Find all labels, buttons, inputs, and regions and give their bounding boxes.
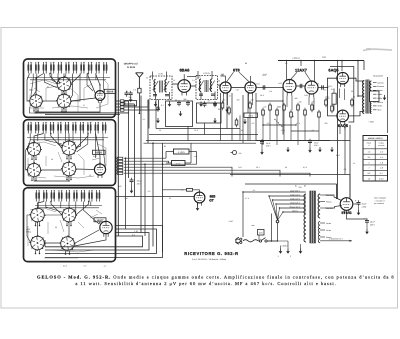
svg-text:a 11 watt. Sensibilità d’anten: a 11 watt. Sensibilità d’antenna 2 μV pe… bbox=[75, 281, 336, 286]
grid resistor 1M bbox=[187, 188, 193, 191]
tube V5b 12AX7 bbox=[305, 81, 318, 97]
tube V3 6BA6 (IF amp) bbox=[178, 80, 191, 96]
svg-text:6BA6: 6BA6 bbox=[107, 91, 114, 94]
svg-text:14.5: 14.5 bbox=[262, 74, 266, 77]
tube V2 6BE6 (converter) bbox=[94, 164, 105, 178]
svg-text:36: 36 bbox=[55, 226, 57, 229]
under-IF caps and stubs bbox=[156, 106, 160, 112]
svg-text:47: 47 bbox=[83, 104, 85, 107]
svg-text:GELOSO - Mod. G. 952-R. Onde m: GELOSO - Mod. G. 952-R. Onde medie e cin… bbox=[37, 274, 395, 279]
svg-text:1.25: 1.25 bbox=[134, 230, 138, 233]
coil bank bus, block 3 bbox=[35, 205, 102, 207]
volume control dashed arrow bbox=[275, 119, 284, 128]
svg-text:4.7: 4.7 bbox=[199, 76, 202, 79]
svg-text:B1: B1 bbox=[295, 185, 297, 188]
svg-text:Colleg.: Colleg. bbox=[379, 141, 385, 144]
svg-text:Nota: collegare: Nota: collegare bbox=[374, 197, 386, 200]
svg-text:1–8: 1–8 bbox=[380, 167, 383, 170]
svg-text:16 μF: 16 μF bbox=[362, 203, 368, 206]
svg-text:Verde: Verde bbox=[377, 105, 382, 108]
wire bus y140 right bbox=[256, 139, 351, 141]
svg-text:2k: 2k bbox=[292, 115, 294, 118]
svg-text:8.2: 8.2 bbox=[368, 172, 371, 175]
svg-text:+275 V: +275 V bbox=[292, 57, 300, 60]
junction dots block 3 bbox=[37, 208, 38, 209]
secondary stubs and labels bbox=[320, 194, 325, 196]
svg-text:47: 47 bbox=[229, 95, 231, 98]
V2 label box bbox=[93, 150, 106, 154]
wire none bbox=[230, 176, 345, 178]
tube V5a 12AX7 bbox=[283, 80, 296, 96]
svg-text:Nero: Nero bbox=[377, 109, 381, 112]
tube V2b oscillator section bbox=[100, 221, 112, 237]
svg-text:5 k: 5 k bbox=[159, 129, 162, 132]
band switch wafer S3a bbox=[29, 207, 45, 226]
terminal strip TS1 bbox=[120, 100, 124, 102]
IF transformer T2 box (A 76 D) bbox=[196, 76, 218, 100]
svg-text:0.5: 0.5 bbox=[148, 190, 151, 193]
tube pin stubs mid bbox=[223, 96, 225, 103]
svg-text:1M: 1M bbox=[251, 99, 254, 102]
electrolytic 50uF/350V a bbox=[260, 139, 264, 145]
coil bank row, block 3 bbox=[36, 190, 40, 202]
svg-text:Rosso 110 V: Rosso 110 V bbox=[290, 205, 301, 208]
internal wiring, block 1 bbox=[36, 74, 44, 95]
svg-text:0.1: 0.1 bbox=[253, 189, 256, 192]
wire 12AX7 grid drop bbox=[282, 88, 284, 135]
extra mesh wiring block 3 bbox=[37, 202, 39, 209]
light mesh texture block 2 bbox=[28, 142, 56, 146]
T1 trimmer caps bbox=[153, 94, 157, 96]
band switch wafer S1c bbox=[56, 93, 72, 112]
junction dots block 2 bbox=[33, 140, 34, 141]
wire B+ drop 2 bbox=[349, 125, 351, 198]
svg-text:Rosso: Rosso bbox=[377, 89, 382, 92]
svg-text:165: 165 bbox=[220, 74, 223, 77]
field coil box bbox=[370, 91, 379, 102]
RF tuner unit block 3 bbox=[24, 188, 116, 262]
input link box bbox=[125, 101, 137, 106]
svg-text:6T8: 6T8 bbox=[233, 67, 241, 72]
coil box A 1076 bbox=[174, 149, 190, 154]
V1 label box bbox=[104, 89, 116, 93]
svg-text:a 6013: a 6013 bbox=[282, 244, 288, 247]
svg-text:22: 22 bbox=[169, 197, 171, 200]
svg-text:25: 25 bbox=[218, 108, 220, 111]
svg-text:80: 80 bbox=[245, 62, 247, 65]
coil bank row, block 1 bbox=[28, 62, 32, 74]
T2 trimmer caps bbox=[199, 93, 203, 95]
stubs above IF tubes bbox=[183, 74, 185, 80]
svg-text:2 k: 2 k bbox=[126, 90, 129, 93]
heater line 6.3V bbox=[320, 240, 352, 242]
svg-text:250: 250 bbox=[217, 80, 220, 83]
svg-text:10: 10 bbox=[173, 79, 175, 82]
T2 windings bbox=[199, 79, 201, 91]
svg-text:Imped.: Imped. bbox=[366, 141, 372, 144]
rectifier wires bbox=[325, 195, 342, 201]
band switch wafer S3b bbox=[61, 207, 77, 226]
wire AVC top bbox=[144, 142, 257, 144]
svg-text:0.05: 0.05 bbox=[259, 232, 263, 235]
phono jack bbox=[233, 151, 237, 155]
light mesh texture block 3 bbox=[30, 208, 56, 212]
T1 trimmer arrows bbox=[153, 81, 158, 90]
band switch wafer S2a bbox=[26, 141, 42, 160]
svg-text:rete: rete bbox=[251, 224, 254, 227]
antenna bbox=[138, 77, 140, 88]
svg-text:0.01: 0.01 bbox=[256, 83, 260, 86]
electrolytic 50uF/350V b bbox=[308, 139, 312, 145]
svg-text:0.1: 0.1 bbox=[132, 233, 135, 236]
svg-text:Giallo 140 V: Giallo 140 V bbox=[290, 197, 301, 200]
wires from TS1 bbox=[116, 100, 121, 102]
svg-text:A 76 D: A 76 D bbox=[203, 72, 210, 75]
svg-text:1 M: 1 M bbox=[124, 197, 128, 200]
svg-text:500 k: 500 k bbox=[248, 115, 253, 118]
svg-text:Altoparlante: Altoparlante bbox=[373, 75, 383, 78]
primary tap wires bbox=[243, 191, 306, 193]
coil bank row, block 2 bbox=[28, 122, 32, 134]
mains plug bbox=[236, 238, 239, 244]
svg-text:0.1: 0.1 bbox=[344, 168, 347, 171]
svg-text:morsetti: morsetti bbox=[378, 144, 385, 147]
svg-text:470: 470 bbox=[311, 101, 314, 104]
svg-text:Giallo: Giallo bbox=[377, 97, 382, 100]
svg-text:6AQ5: 6AQ5 bbox=[338, 123, 349, 128]
nested corner wires from tuner to bottom bus bbox=[45, 226, 163, 258]
band switch wafer S1a bbox=[56, 76, 72, 95]
svg-text:Verde: Verde bbox=[377, 93, 382, 96]
svg-text:1.5: 1.5 bbox=[368, 151, 371, 154]
main drop wire left bbox=[117, 62, 119, 236]
svg-text:0.5: 0.5 bbox=[324, 89, 327, 92]
band switch wafer S2c bbox=[26, 162, 42, 181]
svg-text:Rosso: Rosso bbox=[326, 200, 331, 203]
wire diode-triode bbox=[231, 87, 245, 89]
wires beside 6AQ5 bbox=[330, 67, 354, 123]
coil bank bus, block 2 bbox=[27, 137, 108, 139]
B+ rail bbox=[278, 60, 364, 62]
svg-text:2.2: 2.2 bbox=[267, 122, 270, 125]
extra mesh wiring block 1 bbox=[31, 74, 33, 96]
T1 windings bbox=[154, 80, 156, 92]
internal wiring, block 2 bbox=[34, 134, 44, 143]
svg-text:4,7 k: 4,7 k bbox=[245, 197, 249, 200]
svg-text:1 k: 1 k bbox=[353, 162, 356, 165]
12AX7 leader lines bbox=[291, 72, 297, 79]
svg-text:osc.: osc. bbox=[194, 156, 198, 158]
svg-text:B2: B2 bbox=[304, 185, 306, 188]
svg-text:0.1: 0.1 bbox=[143, 118, 146, 121]
grounds under IF strip bbox=[154, 102, 158, 107]
long vertical wires bbox=[128, 101, 130, 178]
svg-text:Marrone: Marrone bbox=[377, 85, 384, 88]
svg-text:25: 25 bbox=[351, 90, 353, 93]
band switch wafer S2d bbox=[61, 161, 77, 180]
svg-text:0.01: 0.01 bbox=[238, 166, 242, 169]
band switch wafer S1b bbox=[29, 94, 44, 112]
tube V4b 6T8 triode section bbox=[245, 82, 256, 96]
resistor cluster under 6AQ5 bbox=[325, 98, 328, 107]
svg-text:270: 270 bbox=[325, 96, 328, 99]
6T8 leader lines bbox=[227, 72, 234, 81]
svg-text:N. 2615: N. 2615 bbox=[127, 66, 136, 69]
box below bbox=[172, 161, 186, 166]
svg-text:50k: 50k bbox=[183, 98, 186, 101]
svg-text:per reazione: per reazione bbox=[374, 202, 384, 205]
svg-text:15: 15 bbox=[368, 177, 370, 180]
filter cap 40uF bbox=[347, 211, 368, 219]
svg-text:7: 7 bbox=[368, 167, 369, 170]
antenna series resistor bbox=[138, 88, 141, 93]
svg-text:10 k: 10 k bbox=[281, 129, 285, 132]
svg-text:18: 18 bbox=[51, 158, 53, 161]
wire to magic eye bbox=[116, 196, 195, 198]
tube V9 5Y4-G (rectifier) bbox=[340, 198, 353, 214]
svg-text:50: 50 bbox=[285, 166, 287, 169]
oscillator label box bbox=[94, 218, 106, 222]
svg-text:0.1: 0.1 bbox=[312, 129, 315, 132]
plate feed stubs bbox=[286, 61, 288, 80]
ground at speaker terminals bbox=[383, 95, 387, 100]
svg-text:0.5: 0.5 bbox=[264, 106, 267, 109]
svg-text:1 M: 1 M bbox=[239, 129, 243, 132]
svg-text:+ 250: + 250 bbox=[368, 121, 374, 124]
tube V8 6E5 GT (magic eye) bbox=[194, 192, 205, 206]
mains switch bbox=[259, 240, 261, 242]
svg-text:1–6: 1–6 bbox=[380, 161, 383, 164]
mid horizontal bus wires bbox=[124, 157, 166, 159]
phase splitter wires bbox=[318, 78, 337, 87]
wire bus y140 bbox=[232, 140, 330, 142]
svg-text:Bianco: Bianco bbox=[377, 101, 383, 104]
svg-text:Grigio 160 V: Grigio 160 V bbox=[290, 193, 301, 196]
RF tuner unit block 2 bbox=[24, 120, 116, 186]
junction dots block 1 bbox=[35, 77, 36, 78]
light mesh texture block 1 bbox=[30, 80, 57, 84]
tube V6 6AQ5 (output upper) bbox=[337, 72, 349, 87]
under-IF horizontal wires bbox=[156, 128, 240, 130]
svg-text:40 μF: 40 μF bbox=[370, 221, 376, 224]
mains cord bbox=[243, 240, 258, 242]
coil bank bus, block 1 bbox=[27, 77, 110, 79]
IF transformer T1 box (A 76) bbox=[150, 76, 172, 100]
svg-text:totale 220 V: totale 220 V bbox=[290, 189, 301, 192]
svg-text:220: 220 bbox=[128, 96, 131, 99]
svg-text:4.7: 4.7 bbox=[208, 100, 211, 103]
wire T1-V3 bbox=[172, 83, 178, 85]
svg-text:10: 10 bbox=[317, 83, 319, 86]
T2 trimmer arrows bbox=[198, 81, 203, 90]
OT secondary stubs and labels bbox=[373, 82, 377, 84]
svg-text:25: 25 bbox=[353, 96, 355, 99]
resistor/cap cluster under 6T8 bbox=[221, 101, 224, 110]
svg-text:0.05: 0.05 bbox=[304, 94, 308, 97]
wire bus y184 bbox=[245, 183, 337, 185]
volume pot 500k bbox=[244, 113, 258, 117]
6AQ5 grid resistor bbox=[332, 93, 336, 104]
svg-text:0.02: 0.02 bbox=[331, 88, 335, 91]
svg-text:12AX7: 12AX7 bbox=[295, 67, 307, 72]
extra mesh wiring block 2 bbox=[28, 134, 30, 150]
svg-text:1M: 1M bbox=[181, 189, 184, 192]
internal wiring, block 3 bbox=[38, 202, 44, 209]
svg-text:3 k: 3 k bbox=[133, 88, 136, 91]
wire B+ to OT centre tap bbox=[357, 61, 359, 97]
wire rail end drop bbox=[363, 61, 365, 71]
PSU grounds bbox=[279, 249, 283, 254]
extra horizontal nets bbox=[256, 100, 283, 102]
svg-text:220k: 220k bbox=[277, 106, 281, 109]
svg-text:6–7: 6–7 bbox=[380, 172, 383, 175]
AVC loop nested rectangles bbox=[166, 101, 193, 127]
svg-text:Nero 0: Nero 0 bbox=[292, 209, 298, 212]
wire mains to taps bbox=[242, 192, 244, 237]
wire V4-V5 bbox=[256, 87, 283, 89]
tube V4a 6T8 diode section bbox=[220, 82, 231, 96]
svg-text:Azzurro: Azzurro bbox=[377, 81, 384, 84]
band switch wafer S2b bbox=[61, 140, 78, 160]
wires from TS2 fan bbox=[116, 157, 118, 159]
svg-text:1M: 1M bbox=[299, 101, 302, 104]
svg-text:0.5: 0.5 bbox=[252, 122, 255, 125]
svg-text:1–4: 1–4 bbox=[380, 156, 383, 159]
wire to table bbox=[387, 77, 389, 133]
svg-text:AMPLIF. USCITA: AMPLIF. USCITA bbox=[368, 137, 383, 140]
wire bus y174 bbox=[230, 174, 350, 176]
svg-text:A 76: A 76 bbox=[158, 72, 163, 75]
svg-text:47 k: 47 k bbox=[296, 122, 300, 125]
wire V5a-V5b bbox=[296, 85, 305, 87]
svg-text:52: 52 bbox=[47, 86, 49, 89]
svg-text:0.1: 0.1 bbox=[223, 99, 226, 102]
svg-text:47k: 47k bbox=[239, 152, 242, 155]
svg-text:i morsetti 6-7: i morsetti 6-7 bbox=[375, 199, 385, 202]
svg-text:5: 5 bbox=[368, 161, 369, 164]
resistor cluster under 12AX7 bbox=[262, 108, 265, 117]
svg-text:RICEVITORE G. 952-R: RICEVITORE G. 952-R bbox=[184, 251, 238, 256]
terminal strip TS2 bbox=[117, 157, 123, 159]
electrolytic 50uF bbox=[130, 178, 134, 184]
svg-text:1 M: 1 M bbox=[235, 89, 239, 92]
svg-text:47k: 47k bbox=[236, 99, 239, 102]
series coupling caps bbox=[262, 85, 264, 89]
svg-text:68 k: 68 k bbox=[260, 94, 264, 97]
svg-text:470 k: 470 k bbox=[328, 85, 333, 88]
svg-text:12AT7: 12AT7 bbox=[97, 219, 105, 222]
svg-text:0.047: 0.047 bbox=[229, 220, 234, 223]
svg-text:22 k: 22 k bbox=[194, 129, 198, 132]
svg-text:330: 330 bbox=[298, 186, 301, 189]
output matching table bbox=[363, 136, 388, 182]
svg-text:6–12: 6–12 bbox=[379, 177, 383, 180]
svg-text:2.5: 2.5 bbox=[368, 156, 371, 159]
svg-text:Verde: Verde bbox=[326, 222, 331, 225]
faint pencil smudge bbox=[363, 49, 392, 50]
RF tuner unit block 1 (Gruppo A.F. N.2615) bbox=[24, 59, 116, 117]
svg-text:450 V: 450 V bbox=[370, 223, 376, 226]
svg-text:6BA6: 6BA6 bbox=[180, 67, 191, 72]
svg-text:GRUPPO A.F.: GRUPPO A.F. bbox=[124, 62, 139, 65]
svg-text:1–2: 1–2 bbox=[380, 151, 383, 154]
svg-text:Verde 125 V: Verde 125 V bbox=[290, 201, 301, 204]
wire V3-T2 bbox=[191, 85, 197, 87]
svg-text:1.5: 1.5 bbox=[285, 62, 288, 65]
svg-text:GT: GT bbox=[209, 198, 213, 202]
output transformer T3 + field coil bbox=[363, 81, 365, 114]
svg-text:350 V: 350 V bbox=[266, 145, 271, 148]
svg-text:0.02: 0.02 bbox=[278, 82, 282, 85]
svg-text:350 V: 350 V bbox=[314, 144, 319, 147]
band switch wafer S3d bbox=[59, 235, 75, 254]
svg-text:A 1076: A 1076 bbox=[178, 151, 186, 154]
line capacitor 0.047 bbox=[258, 230, 265, 236]
filter cap 16uF bbox=[353, 203, 358, 205]
svg-text:Verde: Verde bbox=[326, 229, 331, 232]
band switch wafer S3c bbox=[29, 235, 45, 254]
svg-text:50 μF: 50 μF bbox=[137, 180, 143, 183]
svg-text:1 M: 1 M bbox=[269, 90, 273, 93]
multiwire band under block A bbox=[34, 112, 129, 114]
tap selector bbox=[276, 220, 279, 223]
power transformer T4 bbox=[304, 194, 306, 242]
svg-text:220: 220 bbox=[324, 122, 327, 125]
svg-text:S.p.A. GELOSO – Vle Brenta – M: S.p.A. GELOSO – Vle Brenta – Milano bbox=[192, 258, 227, 261]
OT primary wires bbox=[349, 78, 365, 81]
wire T2-V4 bbox=[218, 84, 220, 86]
ground under 6E5 bbox=[196, 206, 200, 211]
svg-text:a 2 k: a 2 k bbox=[129, 102, 133, 105]
antenna coupling caps bbox=[125, 91, 129, 97]
svg-text:ai filamenti 6,3 V: ai filamenti 6,3 V bbox=[329, 238, 343, 241]
svg-text:3 k: 3 k bbox=[146, 77, 149, 80]
svg-text:1 k: 1 k bbox=[192, 79, 195, 82]
wire B+ drop 1 bbox=[337, 66, 339, 199]
svg-text:a 350: a 350 bbox=[362, 205, 367, 208]
tube V1 6BA6 (RF amp) bbox=[95, 91, 105, 103]
svg-text:560: 560 bbox=[294, 97, 297, 100]
svg-text:0.1: 0.1 bbox=[161, 104, 164, 107]
tube V7 6AQ5 (output lower) bbox=[337, 110, 349, 125]
